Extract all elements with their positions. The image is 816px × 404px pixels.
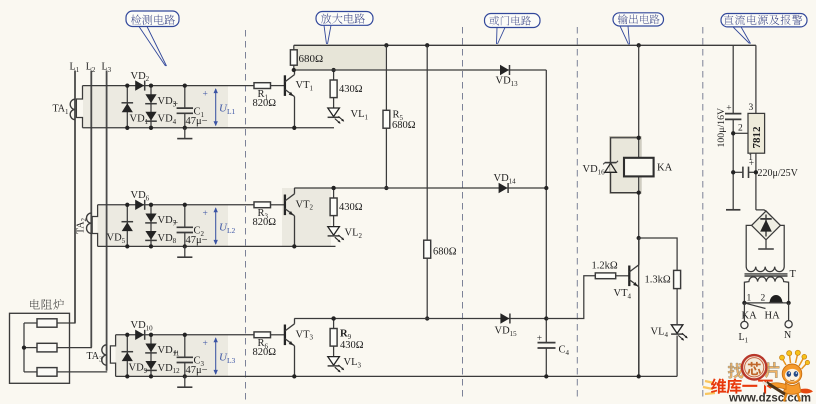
regulator supply vertical wire — [755, 45, 757, 113]
transformer TA3 coil — [102, 345, 107, 365]
junction VT1 emitter on bottom wire — [292, 126, 296, 130]
shaded panel detection stage 2 — [98, 205, 229, 247]
junction relay branch top — [637, 136, 641, 140]
svg-text:+: + — [203, 209, 208, 219]
TA1 secondary loop left bracket — [76, 86, 82, 128]
svg-text:820Ω: 820Ω — [253, 217, 277, 228]
voltage annotation UL1 arrow — [215, 89, 217, 125]
TA3 secondary loop left bracket — [110, 335, 115, 377]
ground below C1 — [184, 128, 186, 139]
junction rail/680 line — [425, 43, 429, 47]
wire bus to element 2 — [24, 347, 37, 349]
TA2 secondary loop left bracket — [92, 205, 97, 247]
LED VL3 — [328, 357, 340, 366]
resistor 430ohm collector stage 3 — [330, 319, 337, 357]
junction C4 bottom — [544, 374, 548, 378]
svg-text:100μ/16V: 100μ/16V — [716, 108, 727, 148]
capacitor 100u/16V — [725, 114, 741, 120]
diode VD5 (shunt, cathode up) — [122, 205, 134, 247]
capacitor C1 47u — [177, 86, 193, 128]
relay parallel branch wires — [611, 138, 639, 193]
wire R1 to base — [271, 85, 285, 87]
junction middle pair top — [149, 333, 153, 337]
junction C1 top — [183, 83, 187, 87]
svg-text:1.3kΩ: 1.3kΩ — [645, 275, 671, 286]
diode VD1 (shunt, cathode up) — [122, 86, 134, 128]
svg-text:+: + — [537, 334, 542, 344]
voltage annotation UL2 arrow — [215, 208, 217, 244]
furnace heater element 1 — [37, 319, 57, 327]
svg-text:N: N — [784, 330, 791, 341]
label TA2 (rotated) — [76, 217, 88, 234]
alarm bell HA — [769, 295, 783, 303]
resistor 430ohm collector stage 1 — [330, 70, 337, 108]
svg-text:+: + — [726, 104, 731, 114]
diode VD7 (upper of middle pair) — [145, 205, 157, 247]
resistor R1 (base) — [254, 83, 271, 89]
wire base network from OR output — [546, 276, 595, 319]
svg-text:+: + — [173, 219, 178, 229]
junction C1 bottom — [183, 126, 187, 130]
transistor VT3 — [284, 325, 286, 346]
wire 1.2k to VT4 base — [616, 275, 630, 277]
bridge rectifier — [752, 211, 781, 240]
svg-text:3: 3 — [749, 103, 754, 113]
label box 直流电源及报警 DC power and alarm — [721, 14, 807, 27]
watermark text 找 — [728, 363, 744, 378]
label 电阻炉 — [30, 299, 64, 310]
label box 放大电路 amplifier circuit — [316, 12, 373, 26]
svg-text:220μ/25V: 220μ/25V — [758, 168, 799, 179]
junction middle pair top — [149, 83, 153, 87]
junction VD5 top — [125, 203, 129, 207]
transistor VT2 — [284, 195, 286, 216]
svg-text:47μ−: 47μ− — [186, 116, 208, 127]
furnace left bus wire — [23, 323, 25, 372]
terminal L1 — [741, 303, 748, 329]
diode VD9 (shunt, cathode up) — [122, 335, 134, 377]
LED VL1 — [328, 108, 340, 117]
svg-text:680Ω: 680Ω — [392, 120, 416, 131]
junction middle pair top — [149, 203, 153, 207]
junction 220u/ground line — [731, 170, 735, 174]
svg-text:+: + — [173, 349, 178, 359]
wire collector node to 1.3k — [639, 238, 677, 270]
capacitor 220u/25V — [733, 167, 756, 178]
divider detection/amplifier — [245, 30, 247, 401]
diode VD11 (upper of middle pair) — [145, 335, 157, 377]
svg-text:680Ω: 680Ω — [433, 247, 457, 258]
wire element3 to L3 — [57, 371, 107, 373]
relay coil KA — [624, 158, 654, 177]
label box 检测电路 detection circuit — [126, 11, 179, 27]
ground below C3 — [184, 376, 186, 387]
junction 220u/pin1 line — [754, 170, 758, 174]
regulator 7812 box — [748, 113, 765, 153]
resistor 1.3k — [674, 270, 681, 288]
junction relay branch bottom — [637, 190, 641, 194]
junction pin2/ground line — [731, 131, 735, 135]
resistor R6 (base) — [254, 332, 271, 338]
diode VD8 (lower of middle pair) — [145, 231, 156, 240]
junction VT1 collector — [292, 68, 296, 72]
junction VT3 emitter on bottom wire — [292, 374, 296, 378]
LED VL2 — [328, 227, 340, 236]
transistor VT1 — [284, 75, 286, 96]
svg-text:KA: KA — [657, 163, 673, 174]
svg-text:820Ω: 820Ω — [253, 98, 277, 109]
svg-text:T: T — [790, 269, 797, 280]
wire common emitter/ground rail stage 3 — [116, 375, 678, 377]
wire bridge right to transformer — [780, 225, 784, 262]
diode VD10 (series, on top wire) — [135, 330, 144, 340]
resistor R5 680ohm — [383, 45, 390, 188]
wire 7812 pin1 down — [755, 153, 757, 210]
furnace box 电阻炉 — [10, 313, 70, 383]
svg-text:+: + — [203, 90, 208, 100]
wire VT1 collector rail — [294, 69, 547, 71]
relay supply vertical wire — [638, 45, 640, 376]
transformer T primary winding — [744, 277, 788, 303]
diode VD6 (series, on top wire) — [135, 200, 144, 210]
diode VD4 (lower of middle pair) — [145, 112, 156, 121]
top +12V rail — [294, 44, 756, 46]
junction rail/R5 — [384, 43, 388, 47]
junction rail/relay line — [637, 43, 641, 47]
svg-text:7812: 7812 — [751, 126, 763, 149]
wire detection stage 2 bottom — [98, 245, 336, 247]
junction R5 bottom — [384, 186, 388, 190]
wire 7812 pin2 to ground line — [733, 132, 748, 134]
divider amplifier/or-gate — [462, 27, 464, 401]
OR-gate output vertical wire — [545, 70, 547, 342]
watermark circle emblem — [742, 355, 766, 379]
wire R3 to base — [271, 204, 285, 206]
line L3 vertical — [106, 71, 108, 371]
label box 或门电路 OR-gate circuit — [485, 14, 541, 28]
junction C3 top — [183, 333, 187, 337]
label box 输出电路 output circuit — [613, 13, 664, 26]
line L2 vertical — [90, 71, 92, 348]
shaded band amplifier top rail — [294, 45, 386, 70]
junction VD1 bottom — [125, 126, 129, 130]
resistor 1.2k — [595, 273, 615, 279]
watermark text 维库一下 — [711, 378, 773, 393]
junction middle pair bottom — [149, 126, 153, 130]
svg-text:1.2kΩ: 1.2kΩ — [592, 261, 618, 272]
watermark glow streaks — [703, 381, 715, 394]
junction VT2 emitter on bottom wire — [292, 244, 296, 248]
transformer TA2 coil — [87, 213, 92, 233]
junction VT4 emitter bottom — [637, 374, 641, 378]
junction bus/element2 — [22, 345, 26, 349]
wire VT3 collector rail — [294, 318, 546, 320]
terminal N — [785, 303, 792, 328]
junction C3 bottom — [183, 374, 187, 378]
svg-text:+: + — [749, 159, 754, 169]
wire element1 to L1 — [57, 322, 76, 324]
wire detection stage 1 bottom — [83, 127, 335, 129]
resistor 680ohm (VT1 pull-up) — [290, 45, 297, 70]
bridge bottom bar — [758, 248, 774, 250]
svg-text:47μ−: 47μ− — [186, 365, 208, 376]
junction 430 stage3 top — [331, 316, 335, 320]
watermark mascot — [762, 350, 813, 401]
resistor R3 (base) — [254, 202, 271, 208]
power ground symbol — [726, 209, 740, 211]
junction VD1 top — [125, 83, 129, 87]
svg-text:680Ω: 680Ω — [299, 53, 324, 65]
divider output/power — [702, 27, 704, 398]
junction contact right — [786, 301, 790, 305]
ground below C2 — [184, 246, 186, 257]
LED VL4 — [671, 325, 683, 334]
junction 430ohm top stage 2 — [331, 186, 335, 190]
contact row wire — [744, 302, 788, 304]
junction VD5 bottom — [125, 244, 129, 248]
wire pin1 line to bridge — [756, 210, 766, 211]
wire R6 to base — [271, 334, 285, 336]
svg-text:1: 1 — [747, 294, 752, 304]
diode VD12 (lower of middle pair) — [145, 361, 156, 370]
junction 430ohm top stage 3 — [331, 316, 335, 320]
junction 430 stage2 top — [331, 186, 335, 190]
junction VD15/vertical — [544, 316, 548, 320]
divider or-gate/output — [576, 27, 578, 401]
svg-text:2: 2 — [761, 294, 766, 304]
wire bridge bottom — [765, 240, 767, 249]
svg-text:47μ−: 47μ− — [186, 235, 208, 246]
watermark 芯 inside emblem — [747, 362, 761, 375]
furnace heater element 2 — [37, 343, 57, 352]
diode VD16 (flywheel) — [603, 161, 618, 173]
svg-text:+: + — [203, 339, 208, 349]
shaded panel amplifier stage 2 — [282, 188, 331, 246]
wire bridge left to transformer — [746, 225, 751, 262]
junction contact left — [742, 301, 746, 305]
relay contact KA blade — [744, 303, 765, 309]
capacitor C3 47u — [177, 335, 193, 377]
svg-text:430Ω: 430Ω — [339, 84, 363, 95]
transformer TA1 coil — [70, 99, 75, 119]
junction C2 bottom — [183, 244, 187, 248]
capacitor C4 — [538, 343, 556, 377]
junction VD14/vertical — [544, 186, 548, 190]
wire VL4 to ground rail — [676, 336, 678, 377]
power ground vertical wire — [732, 45, 734, 210]
wire detection stage 1 top — [83, 85, 255, 87]
svg-text:430Ω: 430Ω — [339, 202, 363, 213]
diode VD14 — [499, 183, 508, 193]
junction 680 mid bottom — [425, 316, 429, 320]
svg-text:820Ω: 820Ω — [253, 347, 277, 358]
junction C2 top — [183, 203, 187, 207]
shaded panel detection stage 3 — [116, 335, 229, 377]
diode VD15 — [500, 313, 509, 323]
transformer T secondary winding — [746, 262, 784, 272]
junction VD9 bottom — [125, 374, 129, 378]
wire detection stage 3 top — [116, 334, 254, 336]
capacitor C2 47u — [177, 205, 193, 247]
wire bus to element 1 — [24, 322, 37, 324]
furnace heater element 3 — [37, 368, 57, 377]
vertical line 680ohm mid — [424, 45, 431, 318]
svg-text:+: + — [173, 100, 178, 110]
svg-text:2: 2 — [738, 124, 743, 134]
wire 1.3k to VL4 — [676, 289, 678, 324]
wire VT2 collector rail — [294, 187, 546, 189]
svg-text:430Ω: 430Ω — [340, 340, 364, 351]
junction VD9 top — [125, 333, 129, 337]
junction middle pair bottom — [149, 374, 153, 378]
wire element2 to L2 — [57, 347, 92, 349]
label 100u/16V (rotated) — [716, 108, 727, 148]
resistor 430ohm collector stage 2 — [330, 188, 337, 226]
junction VT4 collector node — [637, 236, 641, 240]
line L1 vertical — [74, 71, 76, 323]
voltage annotation UL3 arrow — [215, 338, 217, 374]
label 7812 (rotated) — [751, 126, 763, 149]
junction 430ohm top stage 1 — [331, 68, 335, 72]
diode VD2 (series, on top wire) — [135, 80, 144, 90]
transistor VT4 — [628, 266, 630, 287]
svg-text:HA: HA — [765, 311, 781, 322]
diode VD3 (upper of middle pair) — [145, 86, 157, 128]
transformer T core — [745, 274, 788, 276]
watermark text 片 — [765, 362, 779, 378]
relay shaded panel — [610, 137, 641, 194]
diode VD13 — [500, 65, 509, 75]
junction middle pair bottom — [149, 244, 153, 248]
wire detection stage 2 top — [98, 204, 254, 206]
wire bus to element 3 — [24, 371, 37, 373]
shaded panel detection stage 1 — [83, 86, 228, 129]
